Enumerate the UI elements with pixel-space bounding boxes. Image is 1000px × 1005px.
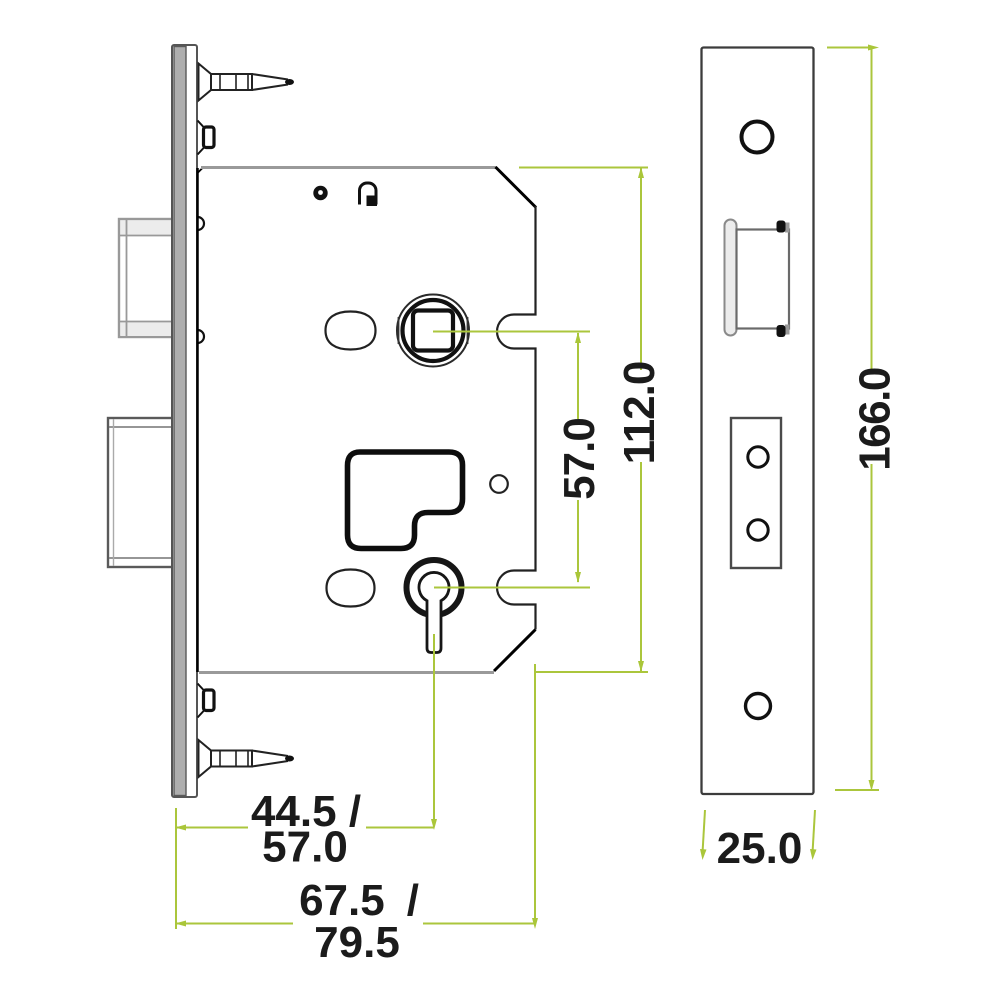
spindle centre line [433, 331, 590, 333]
rivet dot on case [313, 186, 327, 200]
166.0 top extension [827, 47, 872, 49]
deadbolt (side view, grey) [108, 418, 186, 567]
svg-text:166.0: 166.0 [851, 368, 900, 471]
green dimension lines, left view [176, 168, 648, 930]
spindle follower (square hole) [397, 295, 469, 367]
lock case outline [198, 167, 537, 673]
svg-text:112.0: 112.0 [615, 362, 664, 465]
pivot bump lower on case left edge [198, 330, 205, 343]
bottom lug on faceplate [198, 684, 215, 718]
25.0 left arrow line [703, 810, 706, 853]
case right edge extension [534, 664, 536, 924]
112.0 top extension [519, 167, 648, 169]
svg-text:79.5: 79.5 [314, 918, 400, 967]
faceplate (side view) [172, 45, 197, 797]
112.0 bottom extension [536, 671, 648, 673]
staple / spring anchor on case [360, 183, 378, 206]
key centre line [434, 587, 590, 589]
pivot bump upper on case left edge [198, 217, 205, 230]
top lug on faceplate [198, 121, 215, 155]
top screw hole (front view) [742, 122, 773, 153]
faceplate (front view) [702, 48, 814, 795]
svg-text:25.0: 25.0 [717, 824, 803, 873]
svg-text:57.0: 57.0 [555, 418, 604, 500]
lower oval hole [327, 570, 375, 607]
112.0 dimension line [640, 168, 642, 671]
25.0 right arrow line [813, 810, 816, 853]
bottom fixing screw [199, 740, 295, 777]
166.0 bottom extension [835, 789, 879, 791]
67.5/79.5 dimension line [176, 923, 535, 925]
latch bolt (side view, grey) [119, 219, 184, 337]
green dimension lines, right view [703, 48, 880, 854]
L-shaped cutout [348, 452, 463, 549]
latch keep aperture (front view) [725, 220, 790, 338]
deadbolt keep aperture (front view) [731, 418, 781, 568]
left extension line [175, 808, 177, 929]
top fixing screw [199, 64, 295, 101]
green arrowheads, right view [700, 45, 879, 861]
upper oval hole [326, 312, 376, 350]
key centre vertical extension [433, 634, 435, 826]
166.0 dimension line [871, 49, 873, 785]
bottom screw hole (front view) [746, 694, 771, 719]
57.0 dimension line [577, 333, 579, 582]
green arrowheads, left view [175, 167, 644, 929]
44.5/57.0 dimension line [176, 827, 434, 829]
svg-text:57.0: 57.0 [262, 823, 348, 872]
small circle hole right of cutout [490, 475, 508, 493]
key follower with pin [407, 560, 462, 653]
